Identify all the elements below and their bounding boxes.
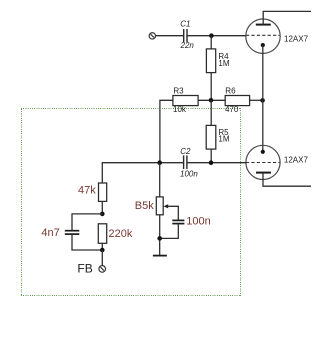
resistor R5 (206, 125, 216, 149)
svg-text:10k: 10k (173, 105, 187, 114)
wire: wiper right and down to 100n (168, 206, 179, 220)
node: R6 / cathode rail junction (260, 98, 265, 103)
anode stem wire down and right to edge (263, 173, 311, 187)
node: C2 / R5 junction (209, 160, 214, 165)
wire: node left and down to 4n7 (72, 214, 102, 230)
wire: 47k to 220k node (101, 201, 103, 214)
resistor R6 (225, 96, 249, 106)
wire: 100n down and left to ground node (160, 224, 179, 238)
svg-text:R6: R6 (225, 86, 236, 95)
svg-text:R3: R3 (173, 86, 184, 95)
svg-text:FB: FB (77, 261, 92, 275)
wire: lower rail from 47k corner to C2 (102, 163, 183, 183)
wire: 4n7 down and right to bottom node (72, 235, 102, 250)
svg-text:22n: 22n (180, 41, 195, 50)
anode stem wire up and right to edge (263, 11, 311, 24)
wire: R4 to mid node (210, 73, 212, 101)
wire: R5 bottom lead (210, 149, 212, 163)
grid (dashed) (246, 34, 280, 36)
wire: input terminal to C1 (156, 35, 184, 37)
svg-text:100n: 100n (186, 216, 210, 228)
svg-text:C2: C2 (180, 147, 191, 156)
node: lower rail / B5k / R3-drop junction (157, 160, 162, 165)
wire: 220k bottom lead (101, 243, 103, 250)
ground (153, 238, 167, 255)
svg-text:12AX7: 12AX7 (284, 156, 309, 165)
capacitor 4n7 (65, 231, 80, 234)
node: R3/R4/R5/R6 junction (209, 98, 214, 103)
input terminal IN (149, 33, 155, 39)
resistor 220k (98, 224, 106, 244)
anode plate (256, 172, 271, 174)
wire: R6 node down to V2 cathode (262, 100, 264, 152)
svg-text:12AX7: 12AX7 (284, 35, 309, 44)
node: B5k / 100n / ground junction (157, 236, 162, 241)
capacitor C1 (184, 29, 187, 42)
anode plate (256, 24, 271, 26)
node: C1 / R4 / grid junction (209, 33, 214, 38)
wiper arrow (164, 204, 169, 208)
wire: C1 to tube V1 grid (187, 35, 246, 37)
triode U1 12AX7 (top) (246, 11, 311, 53)
svg-text:B5k: B5k (135, 200, 154, 212)
wire: R3 to center node (198, 99, 225, 101)
svg-text:C1: C1 (180, 19, 190, 28)
feedback network boundary (green dotted frame) (21, 108, 241, 296)
svg-text:4n7: 4n7 (41, 227, 59, 239)
svg-text:1M: 1M (218, 135, 229, 144)
cathode dot (261, 43, 265, 47)
node: 4n7 / 220k / FB junction (100, 248, 105, 253)
wire: down to FB terminal (101, 250, 103, 266)
resistor R4 (206, 49, 215, 73)
resistor 47k (99, 183, 107, 201)
resistor R3 (173, 96, 198, 106)
terminal FB (99, 266, 106, 273)
capacitor C2 (184, 155, 187, 169)
potentiometer B5k (156, 197, 163, 215)
wire: junction down to R4 (210, 36, 212, 49)
capacitor 100n (pot bypass) (172, 220, 184, 223)
wire: R5 top lead (210, 100, 212, 125)
wire: mid rail left segment with drop to lower rail (160, 100, 173, 162)
wire: B5k top lead (159, 163, 161, 197)
wire: R6 to cathode rail (250, 99, 263, 101)
svg-text:220k: 220k (109, 228, 133, 240)
svg-text:47k: 47k (78, 185, 96, 197)
triode U2 12AX7 (bottom, mirrored) (246, 145, 311, 186)
svg-text:1M: 1M (218, 59, 229, 68)
cathode dot (261, 150, 265, 154)
wire: B5k bottom lead (159, 215, 161, 239)
node: 47k / 4n7 / 220k junction (100, 212, 105, 217)
wire: V1 cathode down to R6 node (262, 45, 264, 100)
svg-text:470: 470 (225, 105, 239, 114)
wire: C2 to V2 grid (187, 162, 246, 164)
svg-text:100n: 100n (180, 169, 198, 178)
grid (dashed) (246, 162, 280, 164)
